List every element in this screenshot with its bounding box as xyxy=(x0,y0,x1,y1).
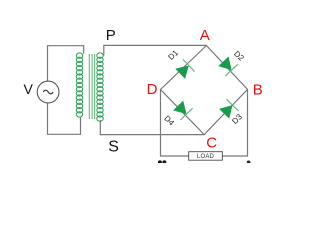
svg-text:A: A xyxy=(200,27,210,44)
svg-text:D4: D4 xyxy=(162,114,176,128)
svg-text:D: D xyxy=(147,81,158,98)
svg-text:S: S xyxy=(108,138,119,155)
svg-text:V: V xyxy=(24,81,34,97)
svg-text:P: P xyxy=(106,27,116,44)
svg-text:C: C xyxy=(206,134,217,151)
svg-text:D2: D2 xyxy=(232,49,246,63)
svg-text:LOAD: LOAD xyxy=(197,154,215,160)
svg-text:D3: D3 xyxy=(230,112,244,126)
svg-text:D1: D1 xyxy=(166,48,180,62)
svg-text:B: B xyxy=(253,81,263,98)
